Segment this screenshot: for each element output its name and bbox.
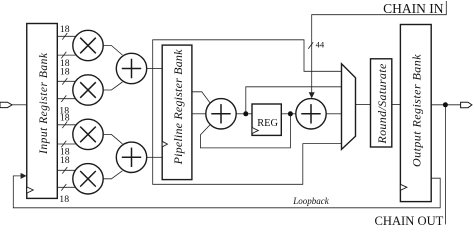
clock triangle input bank xyxy=(27,187,33,193)
svg-text:44: 44 xyxy=(316,40,325,50)
wire pipeline bank output 2 to adder A3 xyxy=(192,113,206,115)
wire mult4 input A xyxy=(57,169,75,171)
svg-text:18: 18 xyxy=(60,113,70,124)
wire loopback xyxy=(13,176,440,208)
wire adder A3 output to REG xyxy=(236,113,252,115)
adder A2 xyxy=(116,142,146,172)
plus symbol A1 xyxy=(122,59,141,78)
plus symbol A2 xyxy=(122,148,141,167)
bus slash mult2 B xyxy=(61,95,66,102)
multiplier M2 xyxy=(73,75,103,105)
svg-text:CHAIN IN: CHAIN IN xyxy=(383,1,444,16)
wire top loop to mux input 1 xyxy=(153,40,342,185)
svg-text:18: 18 xyxy=(60,67,70,78)
X symbol M4 xyxy=(80,171,96,187)
svg-text:18: 18 xyxy=(60,24,70,35)
svg-text:Pipeline Register Bank: Pipeline Register Bank xyxy=(171,49,185,166)
wire adder A1 output to pipeline bank xyxy=(147,68,163,70)
svg-text:REG: REG xyxy=(257,118,278,129)
adder A3 xyxy=(206,99,236,129)
clock triangle pipeline bank xyxy=(162,141,167,147)
svg-text:CHAIN OUT: CHAIN OUT xyxy=(374,214,443,225)
wire accumulator feedback REG to adder A3 xyxy=(200,114,290,148)
svg-text:Input Register Bank: Input Register Bank xyxy=(38,52,50,155)
clock triangle output bank xyxy=(400,184,407,190)
svg-text:Round/Saturate: Round/Saturate xyxy=(375,63,389,145)
X symbol M2 xyxy=(80,82,96,98)
wire node A3 riser to mux input 2 xyxy=(246,87,342,114)
junction node after adder A3 xyxy=(243,111,248,116)
plus symbol A3 xyxy=(211,104,230,123)
bus slash mult4 A xyxy=(62,167,67,174)
input port symbol xyxy=(0,102,12,107)
multiplier M4 xyxy=(73,164,103,194)
plus symbol A4 xyxy=(301,104,320,123)
input register bank box xyxy=(27,24,58,199)
wire input port to input bank xyxy=(12,104,27,106)
svg-text:18: 18 xyxy=(59,194,69,205)
svg-text:Output Register Bank: Output Register Bank xyxy=(410,54,424,167)
wire REG output to adder A4 xyxy=(281,113,296,115)
multiplier M3 xyxy=(73,119,103,149)
wire round/saturate to output bank xyxy=(392,104,401,106)
wire mult2 input B xyxy=(57,98,75,100)
bus slash mult1 B xyxy=(61,52,66,59)
bus slash mult3 A xyxy=(62,122,67,129)
X symbol M3 xyxy=(80,127,96,143)
bus slash mult3 B xyxy=(61,141,66,148)
wire adder A2 output to pipeline bank xyxy=(147,156,163,158)
wire mux output to round/saturate xyxy=(356,104,371,106)
wire chain in xyxy=(312,1,447,93)
junction node after REG xyxy=(288,111,293,116)
bus slash mult1 A xyxy=(62,33,67,40)
svg-text:18: 18 xyxy=(60,155,70,166)
mux trapezoid xyxy=(342,64,356,150)
adder A1 xyxy=(116,53,146,83)
wire pipeline bank output 1 to adder A3 xyxy=(192,92,210,103)
wire mult2 output to adder A1 xyxy=(103,82,122,90)
multiplier M1 xyxy=(73,30,103,60)
wire mult1 input A xyxy=(57,35,76,37)
clock triangle REG xyxy=(252,128,258,134)
wire mult3 input B xyxy=(57,143,76,145)
bus slash chain in xyxy=(308,42,313,48)
wire adder A4 output to mux xyxy=(326,113,341,115)
junction node at output xyxy=(443,102,448,107)
X symbol M1 xyxy=(80,38,96,54)
wire mult4 output to adder A2 xyxy=(103,171,122,179)
wire mult1 input B xyxy=(57,54,76,56)
REG box xyxy=(252,104,281,135)
round/saturate box xyxy=(371,59,392,147)
wire mult2 input A xyxy=(57,80,75,82)
wire mult4 input B xyxy=(57,186,75,188)
wire mult1 output to adder A1 xyxy=(103,46,122,56)
output register bank box xyxy=(400,25,431,202)
loopback arrowhead into input bank xyxy=(21,173,27,179)
bus slash mult2 A xyxy=(62,78,67,85)
svg-text:Loopback: Loopback xyxy=(292,196,330,206)
chain-in arrowhead into adder A4 xyxy=(309,92,315,98)
wire output bank to output port xyxy=(431,104,460,106)
wire mult3 input A xyxy=(57,124,76,126)
wire mult3 output to adder A2 xyxy=(103,134,122,143)
adder A4 xyxy=(296,99,326,129)
wire chain out xyxy=(444,105,446,225)
output port symbol xyxy=(461,102,472,108)
bus slash mult4 B xyxy=(61,184,66,191)
pipeline register bank box xyxy=(162,45,192,180)
